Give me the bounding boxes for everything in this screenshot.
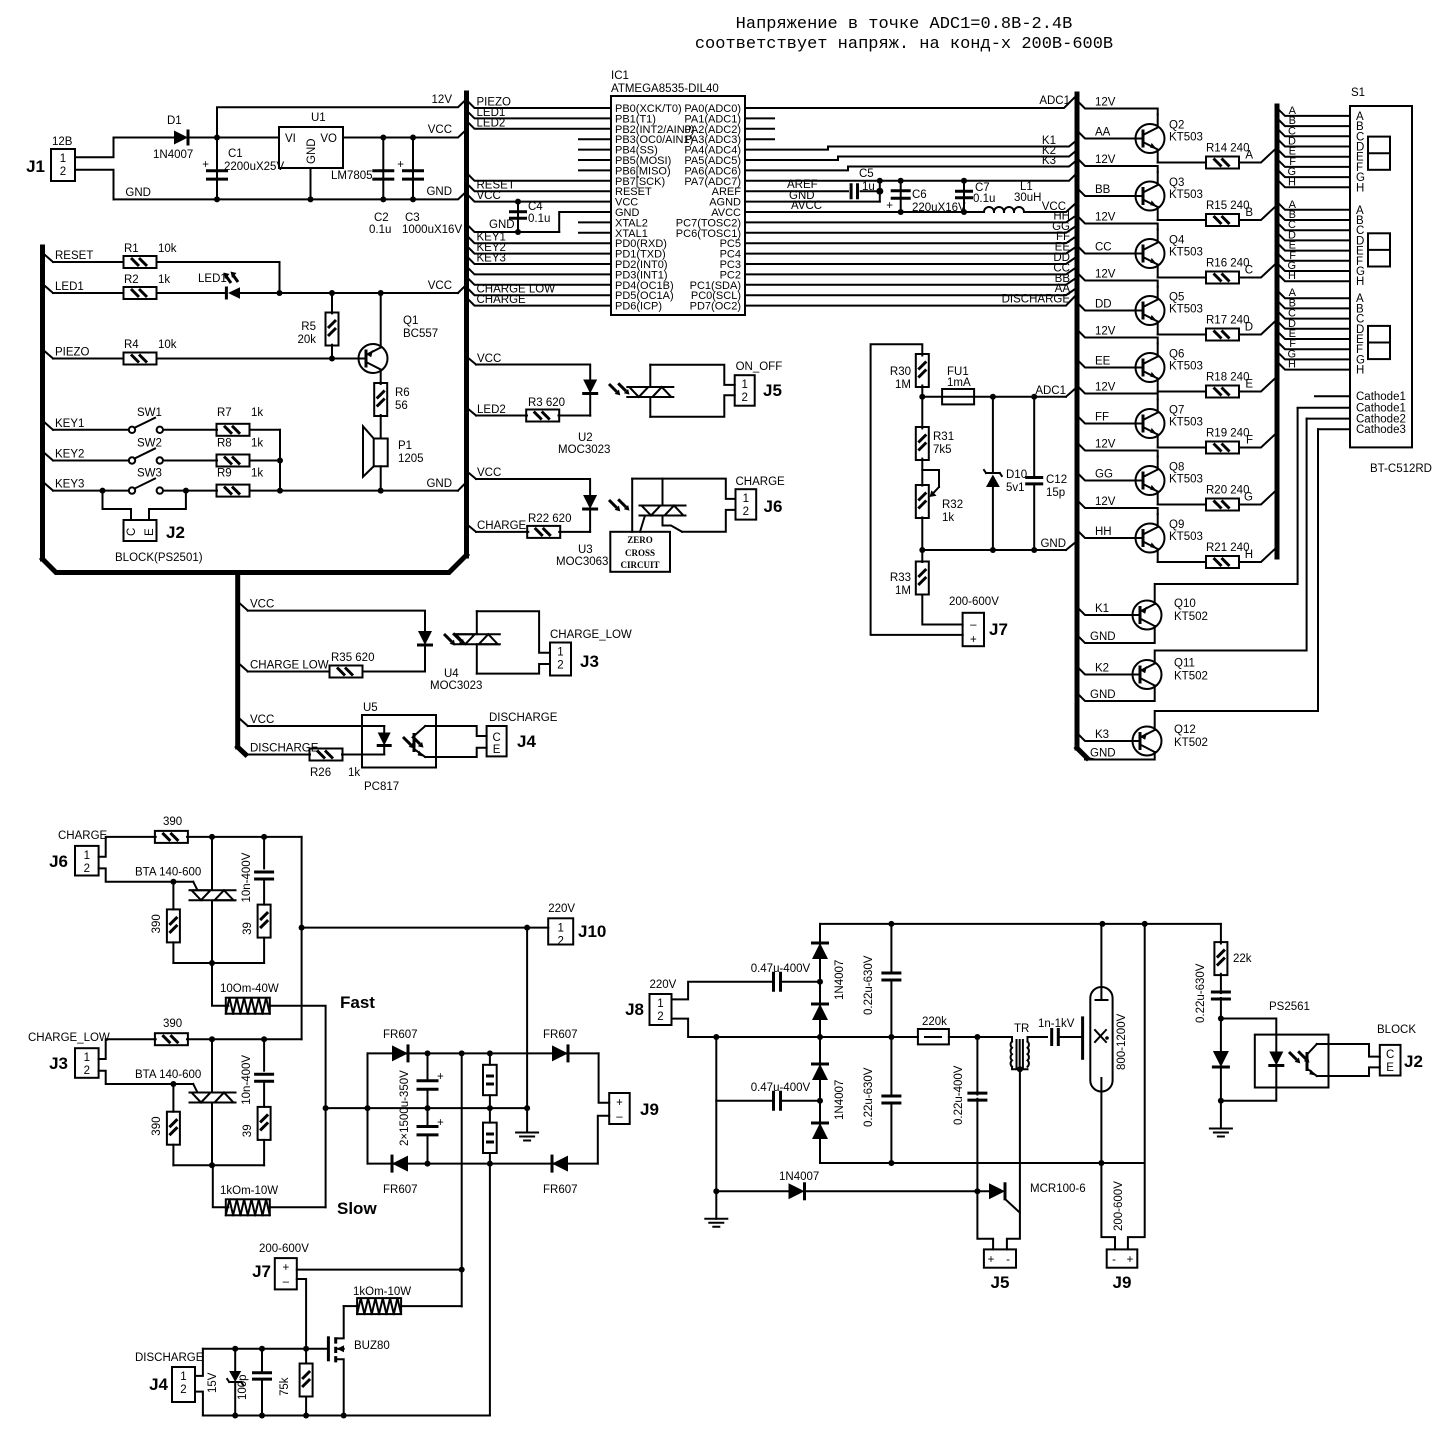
- wire S1 segment D: [1277, 321, 1350, 329]
- svg-text:12V: 12V: [1095, 269, 1116, 281]
- svg-text:Q7: Q7: [1169, 405, 1184, 417]
- wire K2 base row: [1077, 667, 1133, 675]
- svg-text:0.22u-400V: 0.22u-400V: [953, 1065, 965, 1125]
- svg-text:CHARGE LOW: CHARGE LOW: [250, 660, 329, 672]
- svg-text:DISCHARGE: DISCHARGE: [489, 712, 558, 724]
- wire ADC1 from PA0: [745, 95, 1077, 108]
- diode FR607 top-right: [552, 1045, 568, 1061]
- ground symbol PS2561: [1220, 1101, 1222, 1129]
- svg-text:GND: GND: [1040, 538, 1066, 550]
- wire speaker to GND row: [380, 466, 382, 490]
- opto U5 PC817 box: [362, 715, 436, 768]
- svg-text:Напряжение в точке ADC1=0.8В-2: Напряжение в точке ADC1=0.8В-2.4В: [736, 15, 1073, 34]
- bus right main vertical: [1075, 94, 1080, 748]
- svg-text:BC557: BC557: [403, 328, 438, 340]
- U5 phototransistor: [413, 733, 416, 752]
- svg-text:G: G: [1244, 492, 1253, 504]
- wire Q11 emitter GND: [1077, 686, 1155, 702]
- svg-text:BB: BB: [1095, 184, 1111, 196]
- wire PB3 stub: [579, 138, 611, 140]
- svg-text:10k: 10k: [158, 243, 177, 255]
- svg-text:DISCHARGE: DISCHARGE: [135, 1352, 204, 1364]
- svg-text:R8: R8: [217, 438, 232, 450]
- diode 1N4007 right: [1220, 1019, 1222, 1052]
- wire triac MT1 to lower rail: [211, 1103, 213, 1166]
- svg-text:1: 1: [741, 379, 747, 391]
- wire J8 pin1: [672, 982, 772, 1000]
- resistor 10Om-40W: [226, 998, 270, 1014]
- svg-text:H: H: [1245, 549, 1253, 561]
- wire VCC to U3: [467, 471, 477, 479]
- resistor 75k: [305, 1349, 307, 1364]
- resistor R17 240: [1206, 329, 1239, 341]
- wire DISCHARGE row: [240, 748, 248, 755]
- svg-text:1k: 1k: [158, 274, 170, 286]
- resistor R3 620: [526, 410, 559, 422]
- transistor Q11 KT502: [1133, 660, 1162, 689]
- wire PA2 stub: [745, 128, 774, 130]
- svg-text:J6: J6: [49, 852, 68, 871]
- wire D1 to C1 node: [188, 137, 279, 139]
- svg-text:20k: 20k: [297, 334, 316, 346]
- wire to segment bus B: [1239, 205, 1277, 220]
- svg-text:7k5: 7k5: [933, 444, 952, 456]
- wire Q1 collector: [380, 370, 382, 385]
- lamp 800-1200V: [1090, 987, 1112, 1092]
- svg-text:39: 39: [242, 1124, 254, 1137]
- wire R32 to GND row: [921, 517, 923, 550]
- resistor 39: [263, 879, 265, 905]
- wire Q1 emitter to VCC: [380, 293, 382, 348]
- wire PD3: [467, 266, 612, 274]
- HV resistors (box): [489, 1053, 491, 1064]
- wire VCC to U5: [240, 719, 248, 726]
- svg-text:Q12: Q12: [1174, 724, 1196, 736]
- wire S1 segment H: [1277, 273, 1350, 281]
- svg-text:1k: 1k: [251, 438, 263, 450]
- svg-text:R16 240: R16 240: [1206, 258, 1249, 270]
- svg-text:1205: 1205: [398, 453, 424, 465]
- capacitor C7 0.1u: [963, 181, 965, 212]
- wire to segment bus F: [1239, 433, 1277, 448]
- wire multiplier column: [819, 924, 821, 1163]
- svg-text:100p: 100p: [237, 1374, 249, 1400]
- svg-text:1M: 1M: [895, 585, 911, 597]
- svg-text:KT503: KT503: [1169, 361, 1203, 373]
- svg-text:Q5: Q5: [1169, 292, 1184, 304]
- svg-text:12В: 12В: [52, 136, 73, 148]
- resistor R8 1k: [217, 455, 250, 467]
- capacitor C5 1u: [745, 190, 848, 192]
- svg-text:C1: C1: [228, 148, 243, 160]
- wire J9 bottom left: [1101, 1163, 1115, 1249]
- wire S1 segment G: [1277, 263, 1350, 271]
- speaker P1 1205: [374, 439, 388, 467]
- wire lower rail: [173, 1164, 264, 1166]
- resistor R16 240: [1206, 272, 1239, 284]
- wire GND row: [922, 549, 1066, 551]
- wire J9 bottom right: [1128, 924, 1145, 1250]
- wire GND rail: [114, 191, 467, 199]
- wire PA7/AREF node: [745, 173, 1077, 181]
- svg-text:GND: GND: [426, 186, 452, 198]
- resistor R9 1k: [217, 485, 250, 497]
- wire J7+ to HV vertical: [297, 1269, 462, 1271]
- svg-text:2: 2: [657, 1011, 663, 1023]
- resistor R5 20k: [331, 293, 333, 313]
- wire 12V to Q8: [1077, 443, 1158, 457]
- wire J2 connections: [100, 488, 106, 494]
- wire AVCC/VCC line with L1: [745, 211, 984, 213]
- svg-text:ON_OFF: ON_OFF: [736, 361, 783, 373]
- wire PIEZO row: [45, 352, 53, 359]
- capacitor 0.22u-400V: [976, 1037, 978, 1095]
- wire KEY1 row: [45, 423, 53, 430]
- wire S1 segment D: [1277, 139, 1350, 147]
- wire Q4 emitter: [1158, 277, 1206, 279]
- svg-text:LED1: LED1: [55, 281, 84, 293]
- svg-text:0.22u-630V: 0.22u-630V: [863, 1067, 875, 1127]
- svg-text:J5: J5: [991, 1273, 1010, 1292]
- wire DD net: [745, 257, 1077, 265]
- svg-text:CROSS: CROSS: [625, 548, 655, 558]
- resistor R1 10k: [124, 256, 157, 268]
- svg-text:PD7(OC2): PD7(OC2): [690, 301, 741, 313]
- resistor R14 240: [1206, 157, 1239, 169]
- svg-text:1k: 1k: [251, 468, 263, 480]
- wire GG base: [1077, 473, 1136, 481]
- svg-text:E: E: [493, 744, 501, 756]
- wire 12V to Q4: [1077, 216, 1158, 230]
- ground symbol 220V: [715, 1191, 717, 1219]
- IC U1 ATMEGA8535-DIL40 body: [611, 96, 745, 315]
- capacitor C12 15p: [1033, 397, 1035, 478]
- resistor 1kOm-10W discharge: [357, 1298, 401, 1314]
- svg-text:HH: HH: [1095, 526, 1112, 538]
- svg-text:+: +: [437, 1117, 444, 1129]
- capacitor C2 0.1u: [382, 138, 384, 200]
- svg-text:1: 1: [60, 153, 66, 165]
- svg-text:12V: 12V: [1095, 382, 1116, 394]
- wire drain: [344, 1305, 357, 1307]
- svg-text:1: 1: [180, 1371, 186, 1383]
- wire 12V to Q9: [1077, 500, 1158, 514]
- svg-text:12V: 12V: [1095, 326, 1116, 338]
- wire K2 net: [745, 150, 1077, 160]
- wire LED2 net: [467, 121, 612, 129]
- svg-text:+: +: [282, 1262, 289, 1274]
- svg-text:2: 2: [84, 1065, 90, 1077]
- svg-text:Q4: Q4: [1169, 235, 1185, 247]
- wire S1 segment G: [1277, 351, 1350, 359]
- svg-text:–: –: [283, 1276, 290, 1288]
- wire PB5 stub: [579, 159, 611, 161]
- wire S1 segment A: [1277, 202, 1350, 210]
- wire S1 segment B: [1277, 212, 1350, 220]
- svg-text:C: C: [1386, 1049, 1394, 1061]
- svg-text:0.22u-630V: 0.22u-630V: [863, 955, 875, 1015]
- svg-text:DD: DD: [1095, 299, 1112, 311]
- resistor R18 240: [1206, 386, 1239, 398]
- wire U1 output VCC to bus: [343, 130, 467, 138]
- wire top HV rail: [820, 923, 1221, 925]
- wire J4 pin2: [195, 1392, 203, 1416]
- svg-text:GND: GND: [125, 187, 151, 199]
- wire CHARGE_LOW to IC: [467, 287, 612, 295]
- transistor Q3 KT503: [1136, 172, 1165, 220]
- transistor Q4 KT503: [1136, 230, 1165, 278]
- capacitor 0.47u-400V bottom: [716, 1037, 771, 1101]
- svg-text:K3: K3: [1095, 729, 1109, 741]
- svg-text:1n-1kV: 1n-1kV: [1038, 1018, 1075, 1030]
- wire lamp top to rail: [1100, 924, 1102, 987]
- svg-text:R26: R26: [310, 767, 331, 779]
- wire K1 net: [745, 140, 1077, 150]
- switch SW2: [129, 457, 135, 463]
- wire TR secondary top to cap: [1028, 1037, 1048, 1042]
- svg-text:GND: GND: [1090, 748, 1116, 760]
- svg-text:J7: J7: [252, 1262, 271, 1281]
- svg-text:R4: R4: [124, 339, 139, 351]
- wire U1 gnd pin: [310, 168, 312, 199]
- wire Q10 collector to cathode: [1155, 408, 1298, 604]
- diode FR607 bottom-right: [552, 1156, 568, 1172]
- transistor Q8 KT503: [1136, 457, 1165, 505]
- wire S1 segment E: [1277, 243, 1350, 251]
- svg-text:C: C: [126, 528, 138, 536]
- svg-text:U4: U4: [444, 668, 459, 680]
- svg-text:R18 240: R18 240: [1206, 372, 1249, 384]
- svg-text:12V: 12V: [1095, 212, 1116, 224]
- resistor R31 7k5: [921, 397, 923, 429]
- svg-text:ZERO: ZERO: [627, 535, 653, 545]
- transformer TR: [1011, 1042, 1029, 1067]
- resistor 390 gate: [172, 882, 174, 910]
- wire Slow row: [213, 1165, 229, 1207]
- wire KEY1 net: [467, 235, 612, 243]
- regulator U1 LM7805: [279, 127, 343, 168]
- svg-text:BTA 140-600: BTA 140-600: [135, 867, 201, 879]
- wire Q10 emitter GND: [1077, 626, 1155, 643]
- svg-text:E: E: [1386, 1062, 1394, 1074]
- svg-text:FR607: FR607: [383, 1184, 418, 1196]
- fuse FU1 1mA: [922, 396, 942, 398]
- wire gnd branch 1N4007: [715, 1101, 717, 1192]
- svg-text:1M: 1M: [895, 379, 911, 391]
- wire CHARGE row to R22: [467, 524, 477, 532]
- svg-text:C: C: [492, 732, 500, 744]
- wire K1 base row: [1077, 607, 1133, 615]
- svg-text:соответствует напряж. на конд-: соответствует напряж. на конд-х 200В-600…: [695, 35, 1113, 54]
- capacitors 2x1500u-350V: [427, 1053, 429, 1081]
- svg-text:12V: 12V: [1095, 97, 1116, 109]
- capacitor 0.22u-630V #1: [890, 924, 892, 971]
- svg-text:0.1u: 0.1u: [973, 193, 995, 205]
- svg-text:CHARGE_LOW: CHARGE_LOW: [550, 629, 632, 641]
- svg-text:1k: 1k: [348, 767, 360, 779]
- svg-text:0.1u: 0.1u: [528, 213, 550, 225]
- wire S1 Cathode3: [1318, 428, 1350, 430]
- resistor 390 series: [155, 1033, 188, 1045]
- wire divider top loop: [871, 344, 963, 635]
- wire DD base: [1077, 303, 1136, 311]
- resistor R30 1M: [916, 354, 929, 387]
- ground symbol bridge: [516, 1133, 538, 1141]
- wire EE net: [745, 246, 1077, 254]
- wire R33 to J7: [922, 595, 962, 625]
- svg-text:F: F: [1246, 435, 1253, 447]
- wire Q5 emitter: [1158, 334, 1206, 336]
- U3 arrows: [607, 493, 632, 518]
- capacitor C3 1000uX16V: [412, 138, 414, 200]
- svg-text:ATMEGA8535-DIL40: ATMEGA8535-DIL40: [611, 83, 719, 95]
- svg-text:1: 1: [557, 647, 563, 659]
- wire triac MT2: [211, 1039, 213, 1092]
- wire LED1 net: [467, 110, 612, 118]
- svg-text:Cathode1: Cathode1: [1356, 391, 1406, 403]
- svg-text:R17 240: R17 240: [1206, 315, 1249, 327]
- PS2561 arrows: [1287, 1045, 1312, 1070]
- wire lamp bottom: [1100, 1092, 1102, 1164]
- svg-text:1k: 1k: [942, 512, 954, 524]
- capacitor 0.22u-630V #2: [890, 1037, 892, 1094]
- svg-text:H: H: [1288, 176, 1296, 188]
- wire J4 top rail: [203, 1348, 306, 1350]
- svg-text:U2: U2: [578, 432, 593, 444]
- svg-text:CHARGE_LOW: CHARGE_LOW: [28, 1032, 110, 1044]
- wire trigger electrode: [1059, 1036, 1083, 1038]
- svg-text:B: B: [1245, 207, 1253, 219]
- wire KEY2 net: [467, 246, 612, 254]
- bus segment vertical: [1275, 106, 1280, 557]
- svg-text:J10: J10: [578, 922, 606, 941]
- svg-text:75k: 75k: [279, 1377, 291, 1396]
- wire HH net: [745, 215, 1077, 223]
- wire S1 segment A: [1277, 290, 1350, 298]
- svg-text:12V: 12V: [1095, 154, 1116, 166]
- transistor Q10 KT502: [1133, 601, 1162, 630]
- connector J4: [487, 726, 507, 756]
- svg-text:200-600V: 200-600V: [1113, 1181, 1125, 1231]
- svg-text:KT502: KT502: [1174, 611, 1208, 623]
- potentiometer R32 1k: [921, 459, 923, 486]
- svg-text:J4: J4: [517, 732, 536, 751]
- svg-text:J9: J9: [640, 1100, 659, 1119]
- svg-text:PC817: PC817: [364, 781, 399, 793]
- connector J7 bottom: [275, 1258, 297, 1289]
- svg-text:R35 620: R35 620: [331, 652, 374, 664]
- svg-text:D10: D10: [1006, 469, 1027, 481]
- wire PS2561 bottom branch: [1221, 1066, 1276, 1101]
- wire mid rail 220V: [716, 1036, 918, 1038]
- svg-text:2: 2: [180, 1384, 186, 1396]
- wire U3 loop and zero cross: [662, 479, 664, 506]
- svg-text:BUZ80: BUZ80: [354, 1340, 390, 1352]
- svg-text:R19 240: R19 240: [1206, 428, 1249, 440]
- wire bridge left vertical: [367, 1053, 369, 1163]
- wire to segment bus E: [1239, 377, 1277, 392]
- wire PIEZO: [467, 100, 612, 108]
- svg-text:E: E: [144, 528, 156, 536]
- wire Q9 emitter: [1158, 561, 1206, 563]
- svg-text:C5: C5: [859, 168, 874, 180]
- svg-text:R15 240: R15 240: [1206, 200, 1249, 212]
- svg-text:1u: 1u: [862, 181, 875, 193]
- wire S1 segment H: [1277, 179, 1350, 187]
- wire J10 ground vertical: [526, 928, 528, 1133]
- svg-text:P1: P1: [398, 440, 412, 452]
- wire KEY3/GND row to bus: [280, 490, 458, 492]
- connector J9 bottom: [1107, 1249, 1138, 1267]
- svg-text:R30: R30: [890, 366, 911, 378]
- resistor 22k: [1214, 942, 1227, 975]
- wire J1 pins: [75, 138, 114, 158]
- wire Q6 emitter: [1158, 391, 1206, 393]
- svg-text:KT503: KT503: [1169, 417, 1203, 429]
- PS2561 LED: [1269, 1052, 1283, 1066]
- wire top rail: [187, 836, 302, 838]
- wire GND jog from IC: [559, 212, 611, 232]
- wire Fast to bridge: [270, 1006, 326, 1208]
- svg-text:S1: S1: [1351, 87, 1365, 99]
- wire AGND: [745, 201, 880, 203]
- svg-text:LED2: LED2: [477, 404, 506, 416]
- svg-text:1k: 1k: [251, 407, 263, 419]
- svg-text:10Om-40W: 10Om-40W: [220, 983, 279, 995]
- 7seg digit symbols: [1368, 137, 1390, 170]
- wire S1 segment F: [1277, 159, 1350, 167]
- wire HV down to J7 row: [461, 1053, 463, 1306]
- wire CHARGE_LOW row: [240, 665, 248, 672]
- wire DISCHARGE net: [745, 294, 1077, 306]
- transistor Q5 KT503: [1136, 287, 1165, 335]
- transistor Q9 KT503: [1136, 514, 1165, 562]
- svg-text:Cathode3: Cathode3: [1356, 424, 1406, 436]
- svg-text:KT502: KT502: [1174, 737, 1208, 749]
- wire S1 Cathode1: [1298, 407, 1350, 409]
- diode 1N4007 horizontal: [716, 1190, 790, 1192]
- wire S1 segment G: [1277, 169, 1350, 177]
- resistor R2 1k: [124, 287, 157, 299]
- bus bottom horizontal: [43, 555, 467, 573]
- wire Q2 emitter: [1158, 162, 1206, 164]
- svg-text:VCC: VCC: [250, 714, 274, 726]
- wire LED1 to VCC bus: [240, 292, 458, 294]
- svg-text:12V: 12V: [1095, 439, 1116, 451]
- wire PS2561 emitter to J2: [1317, 1067, 1380, 1076]
- switch SW3: [129, 487, 135, 493]
- svg-text:+: +: [970, 634, 977, 646]
- wire K3 base row: [1077, 733, 1133, 741]
- wire to segment bus D: [1239, 320, 1277, 335]
- connector J2 BLOCK: [1380, 1045, 1401, 1076]
- wire ADC1 row: [974, 396, 1066, 398]
- zener 15V: [234, 1349, 236, 1371]
- connector J5: [735, 375, 755, 406]
- svg-text:MOC3023: MOC3023: [558, 444, 610, 456]
- svg-text:K1: K1: [1095, 603, 1109, 615]
- svg-text:SW1: SW1: [137, 407, 162, 419]
- svg-text:GND: GND: [489, 219, 515, 231]
- svg-text:1: 1: [84, 1052, 90, 1064]
- wire U5 collector to J4: [425, 726, 486, 736]
- wire 12V to Q2: [1077, 101, 1158, 115]
- connector J8 220V: [650, 994, 672, 1025]
- svg-text:BT-C512RD: BT-C512RD: [1370, 463, 1432, 475]
- svg-text:0.47u-400V: 0.47u-400V: [751, 1082, 811, 1094]
- svg-text:Q9: Q9: [1169, 519, 1184, 531]
- svg-text:J1: J1: [26, 157, 45, 176]
